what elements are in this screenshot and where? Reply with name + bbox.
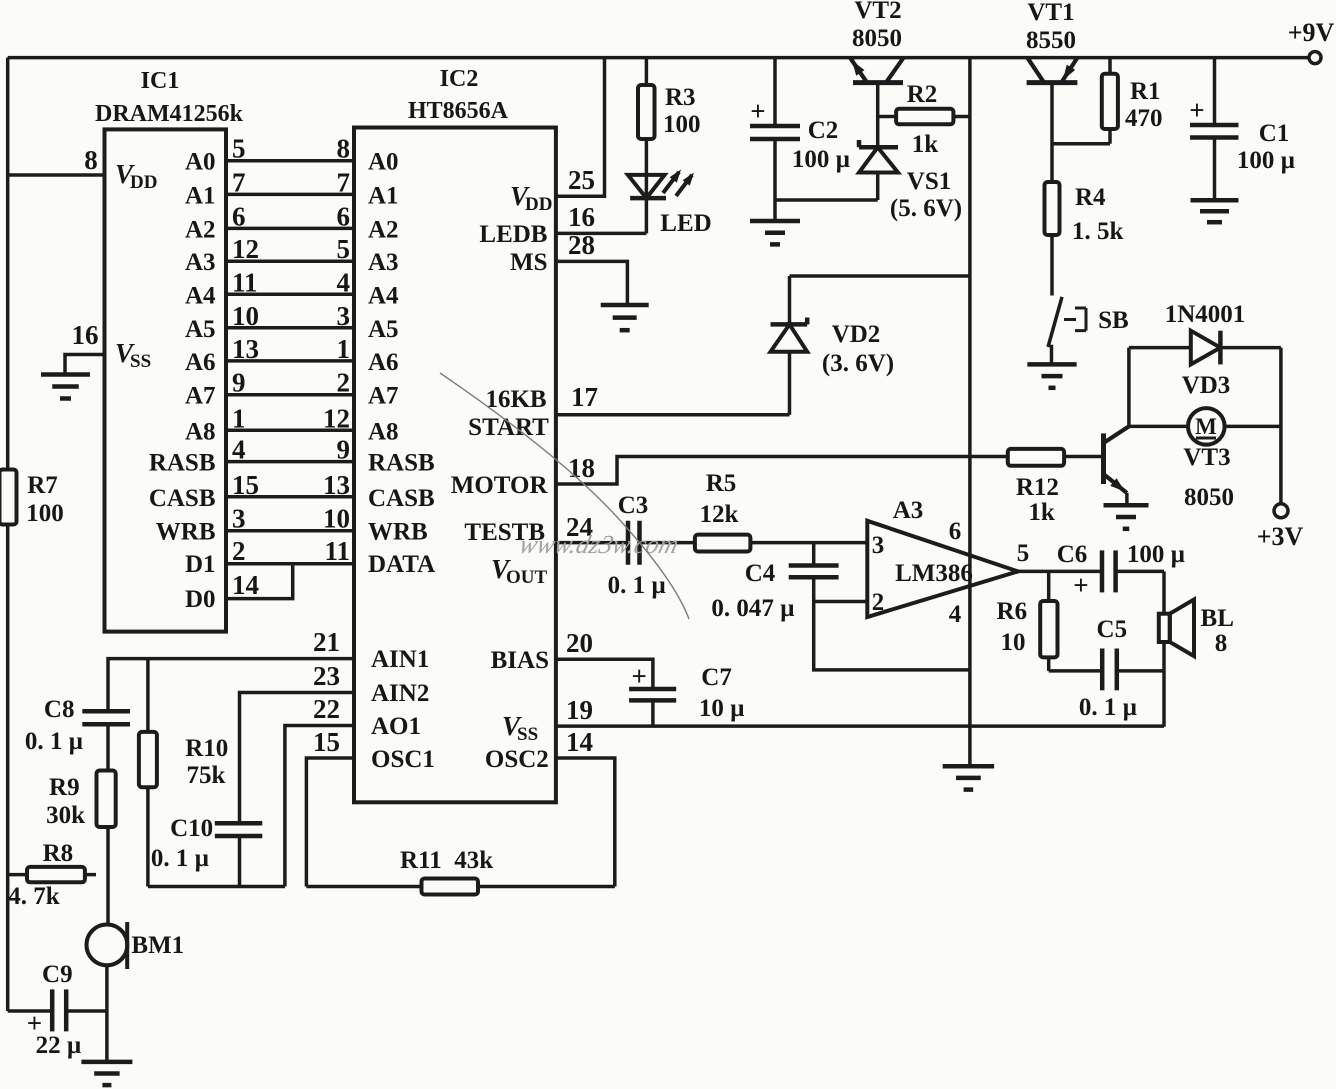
switch SB	[1048, 297, 1062, 347]
wire R8 row	[8, 873, 96, 877]
wire C3 to R5	[640, 541, 695, 545]
wire to +3V terminal	[1279, 348, 1283, 504]
capacitor C10	[215, 823, 262, 836]
wire IC2 pin22 AO1 loop	[285, 726, 354, 887]
svg-text:R11 43k: R11 43k	[400, 847, 493, 874]
wire LED to LEDB	[645, 198, 649, 233]
wire C2 top	[773, 58, 777, 126]
svg-text:17: 17	[571, 382, 598, 412]
svg-text:2: 2	[337, 368, 351, 398]
svg-text:IC2: IC2	[440, 66, 479, 92]
svg-text:5: 5	[1017, 540, 1030, 567]
svg-text:4: 4	[337, 267, 351, 297]
svg-text:+9V: +9V	[1288, 18, 1335, 47]
svg-text:8050: 8050	[852, 25, 902, 52]
svg-text:A7: A7	[368, 383, 399, 410]
wire IC2 pin23 AIN2 to C10	[240, 693, 355, 824]
svg-text:A4: A4	[368, 282, 399, 309]
svg-text:A3: A3	[893, 497, 924, 524]
svg-text:D1: D1	[185, 551, 216, 578]
svg-text:5: 5	[337, 234, 351, 264]
wire C1 bottom	[1213, 138, 1217, 201]
wire IC1 pin16 VSS	[65, 355, 105, 375]
svg-text:1: 1	[232, 403, 246, 433]
resistor R10	[139, 732, 157, 787]
ground VT3	[1104, 505, 1149, 529]
resistor R4	[1045, 182, 1060, 235]
svg-text:MS: MS	[510, 249, 548, 276]
svg-text:LM386: LM386	[895, 560, 973, 587]
wire IC2 pin28 MS	[556, 261, 628, 305]
svg-text:OSC1: OSC1	[371, 746, 435, 773]
wire bus A4	[226, 293, 354, 297]
resistor R7	[0, 470, 17, 525]
diode VD3 1N4001	[1191, 331, 1221, 365]
svg-text:3: 3	[872, 532, 885, 559]
wire IC2 pin15 OSC1 loop	[306, 758, 354, 887]
resistor R2	[896, 109, 953, 125]
svg-text:15: 15	[313, 727, 340, 757]
svg-text:C2: C2	[808, 117, 839, 144]
capacitor C4	[789, 566, 839, 578]
microphone BM1	[87, 925, 128, 966]
svg-text:6: 6	[232, 201, 246, 231]
svg-text:+3V: +3V	[1257, 522, 1304, 551]
wire C9 left	[8, 1009, 53, 1013]
svg-text:C7: C7	[701, 664, 732, 691]
svg-text:8: 8	[337, 134, 351, 164]
svg-text:15: 15	[232, 470, 259, 500]
svg-text:A5: A5	[185, 316, 216, 343]
svg-text:100 µ: 100 µ	[792, 146, 850, 173]
svg-text:VD2: VD2	[832, 321, 881, 348]
svg-text:BIAS: BIAS	[491, 647, 549, 674]
svg-text:R7: R7	[27, 472, 58, 499]
svg-text:WRB: WRB	[156, 519, 216, 546]
wire IC2 pin25 VDD to rail	[556, 58, 605, 197]
capacitor C2	[750, 126, 800, 139]
svg-text:7: 7	[232, 167, 246, 197]
wire bus A3	[226, 259, 354, 263]
svg-text:RASB: RASB	[149, 450, 216, 477]
svg-text:16: 16	[72, 320, 99, 350]
svg-text:A2: A2	[368, 216, 399, 243]
wire VD3 anode side	[1129, 346, 1191, 350]
capacitor C3	[628, 521, 640, 565]
svg-text:6: 6	[949, 518, 962, 545]
svg-text:SS: SS	[130, 351, 151, 372]
svg-text:14: 14	[566, 727, 593, 757]
ground MS	[601, 305, 649, 330]
svg-text:C10: C10	[170, 815, 213, 842]
wire C9 right	[66, 1009, 107, 1013]
svg-text:BL: BL	[1201, 605, 1234, 632]
wire R1 bottom	[1108, 129, 1112, 144]
wire main vertical net	[968, 58, 972, 767]
svg-text:VT3: VT3	[1183, 444, 1230, 471]
wire R1 bottom link	[1052, 142, 1110, 146]
svg-text:14: 14	[232, 570, 259, 600]
svg-text:1N4001: 1N4001	[1165, 301, 1246, 328]
svg-text:HT8656A: HT8656A	[408, 98, 509, 124]
svg-text:VT1: VT1	[1027, 0, 1074, 26]
svg-text:AIN2: AIN2	[371, 680, 429, 707]
wire bus A8	[226, 429, 354, 433]
svg-text:AO1: AO1	[371, 713, 421, 740]
LED diode	[628, 175, 665, 198]
wire C6 to speaker column	[1116, 571, 1164, 726]
svg-text:0. 1 µ: 0. 1 µ	[608, 572, 666, 599]
svg-text:A4: A4	[185, 282, 216, 309]
svg-text:A6: A6	[368, 349, 399, 376]
svg-text:SS: SS	[517, 724, 538, 745]
wire C5 to speaker column	[1117, 669, 1164, 673]
svg-text:START: START	[468, 414, 549, 441]
svg-text:M: M	[1195, 414, 1217, 439]
IC2 HT8656A	[354, 128, 556, 803]
capacitor C9	[52, 989, 66, 1031]
svg-text:0. 1 µ: 0. 1 µ	[25, 728, 83, 755]
wire bus DATA	[226, 562, 354, 566]
wire R6 top	[1047, 571, 1051, 601]
wire C4 bottom loop to pin4	[814, 577, 970, 670]
wire bus A7	[226, 393, 354, 397]
svg-text:BM1: BM1	[131, 932, 184, 959]
ground C2	[750, 221, 800, 244]
wire left border net	[6, 58, 10, 1011]
wire bus A6	[226, 359, 354, 363]
terminal +9V	[1309, 52, 1321, 64]
svg-text:A2: A2	[185, 216, 216, 243]
wire op-amp pin2	[814, 600, 868, 604]
svg-text:VD3: VD3	[1182, 372, 1231, 399]
svg-text:8050: 8050	[1184, 484, 1234, 511]
svg-text:3: 3	[337, 301, 351, 331]
capacitor C6	[1102, 550, 1116, 592]
svg-text:1: 1	[337, 334, 351, 364]
svg-text:DATA: DATA	[368, 551, 435, 578]
wire R4 to SB	[1050, 235, 1054, 296]
wire bus A0	[226, 159, 354, 163]
svg-text:20: 20	[566, 628, 593, 658]
svg-text:+: +	[1073, 570, 1088, 600]
ground BM1	[81, 1062, 132, 1085]
wire VT1 base down	[1050, 83, 1054, 182]
svg-text:IC1: IC1	[141, 68, 180, 94]
svg-text:5: 5	[232, 134, 246, 164]
wire C1 top	[1213, 58, 1217, 125]
svg-text:A0: A0	[368, 149, 399, 176]
speaker BL	[1159, 614, 1170, 642]
svg-text:3: 3	[232, 504, 246, 534]
svg-text:22: 22	[313, 694, 340, 724]
svg-text:R12: R12	[1016, 474, 1059, 501]
wire AO1 bottom net	[148, 885, 285, 889]
svg-text:+: +	[632, 661, 647, 691]
svg-text:R1: R1	[1130, 78, 1161, 105]
wire IC2 pin24 TESTB to C3	[556, 541, 628, 545]
capacitor C8	[82, 711, 130, 724]
scratch artifact	[440, 373, 689, 619]
wire R5 to op-amp pin3	[750, 541, 867, 545]
wire IC2 pin18 MOTOR to R12 to VT3 base	[556, 457, 1104, 485]
wire C2 bottom	[773, 139, 777, 221]
svg-text:16KB: 16KB	[485, 386, 546, 413]
ground IC1 VSS	[41, 375, 90, 399]
svg-text:22 µ: 22 µ	[36, 1032, 82, 1059]
ground LM386 pin4	[943, 766, 994, 789]
wire R2 right	[953, 115, 970, 119]
transistor VT2 8050	[853, 80, 903, 85]
wire VT3 emitter	[1125, 493, 1129, 505]
wire bus WRB	[226, 529, 354, 533]
wire bus CASB	[226, 495, 354, 499]
svg-text:18: 18	[568, 453, 595, 483]
svg-text:23: 23	[313, 661, 340, 691]
svg-text:www.dz3w.com: www.dz3w.com	[517, 529, 682, 559]
svg-text:DRAM41256k: DRAM41256k	[95, 101, 244, 127]
svg-text:+: +	[750, 96, 765, 126]
svg-text:A6: A6	[185, 349, 216, 376]
transistor VT3 8050	[1101, 433, 1106, 484]
svg-text:19: 19	[566, 695, 593, 725]
wire C7 bottom	[651, 700, 655, 726]
wire C10 bottom	[238, 836, 242, 887]
svg-text:R8: R8	[43, 840, 74, 867]
wire IC2 pin21 AIN1 to C8	[108, 659, 354, 712]
svg-text:0. 047 µ: 0. 047 µ	[711, 595, 794, 622]
svg-text:9: 9	[337, 435, 351, 465]
svg-text:13: 13	[323, 470, 350, 500]
wire motor right	[1225, 425, 1281, 429]
wire op-amp output to C6	[1018, 570, 1102, 574]
svg-text:9: 9	[232, 368, 246, 398]
zener VS1	[859, 140, 898, 147]
svg-text:(5. 6V): (5. 6V)	[890, 195, 962, 222]
svg-text:8550: 8550	[1026, 27, 1076, 54]
svg-text:4. 7k: 4. 7k	[8, 883, 60, 910]
svg-text:11: 11	[324, 536, 350, 566]
resistor R6	[1040, 601, 1057, 657]
svg-text:10: 10	[1001, 629, 1026, 656]
svg-text:0. 1 µ: 0. 1 µ	[1079, 694, 1137, 721]
ground C1	[1191, 200, 1239, 222]
svg-text:DD: DD	[130, 172, 157, 193]
svg-text:A8: A8	[185, 418, 216, 445]
wire VD3 left leg	[1127, 348, 1131, 427]
svg-text:A1: A1	[368, 182, 399, 209]
svg-text:C5: C5	[1097, 616, 1128, 643]
terminal +3V	[1274, 504, 1288, 518]
svg-text:R2: R2	[907, 81, 938, 108]
svg-text:100: 100	[663, 111, 701, 138]
svg-text:2: 2	[232, 536, 246, 566]
wire R6 bottom	[1047, 657, 1051, 671]
resistor R8	[27, 867, 85, 882]
svg-text:C8: C8	[44, 696, 75, 723]
wire to bottom ground	[105, 1011, 109, 1062]
transistor VT1 8550	[1027, 80, 1078, 85]
svg-text:R3: R3	[665, 84, 696, 111]
svg-text:(3. 6V): (3. 6V)	[822, 350, 894, 377]
svg-text:100: 100	[26, 500, 64, 527]
svg-text:A3: A3	[368, 249, 399, 276]
svg-text:A5: A5	[368, 316, 399, 343]
svg-text:12k: 12k	[700, 501, 739, 528]
svg-text:C6: C6	[1057, 541, 1088, 568]
svg-text:VT2: VT2	[854, 0, 901, 24]
svg-text:DD: DD	[525, 194, 552, 215]
svg-text:R9: R9	[49, 774, 80, 801]
wire R1 top	[1108, 58, 1112, 74]
wire motor left	[1129, 425, 1188, 429]
wire R2 left	[878, 115, 896, 119]
svg-text:10: 10	[232, 301, 259, 331]
svg-text:6: 6	[337, 201, 351, 231]
svg-text:25: 25	[568, 165, 595, 195]
wire IC1 pin8 VDD	[8, 173, 105, 177]
svg-text:C3: C3	[618, 492, 649, 519]
svg-text:2: 2	[872, 589, 885, 616]
svg-text:4: 4	[949, 601, 962, 628]
LED arrows	[663, 172, 692, 196]
svg-text:A3: A3	[185, 249, 216, 276]
wire R3 to LED	[645, 139, 649, 198]
svg-text:A7: A7	[185, 383, 216, 410]
svg-text:100 µ: 100 µ	[1237, 147, 1295, 174]
svg-text:8: 8	[84, 145, 98, 175]
wire VD2 top to main vertical	[790, 276, 970, 324]
wire C4 top lead	[812, 543, 816, 566]
svg-text:100 µ: 100 µ	[1127, 541, 1185, 568]
wire BM1 bottom	[105, 965, 109, 1011]
svg-text:C4: C4	[745, 560, 776, 587]
svg-text:1k: 1k	[1028, 499, 1055, 526]
svg-text:R4: R4	[1075, 184, 1106, 211]
resistor R12	[1008, 449, 1064, 466]
svg-text:8: 8	[1215, 630, 1228, 657]
svg-text:7: 7	[337, 167, 351, 197]
svg-text:C1: C1	[1259, 120, 1290, 147]
svg-text:75k: 75k	[187, 762, 226, 789]
wire VD3 cathode side	[1220, 346, 1281, 350]
svg-text:10: 10	[323, 504, 350, 534]
resistor R3	[638, 85, 655, 139]
svg-text:LED: LED	[660, 210, 711, 237]
wire IC2 pin16 LEDB	[556, 232, 647, 236]
svg-text:VS1: VS1	[907, 168, 951, 195]
svg-text:OSC2: OSC2	[485, 746, 549, 773]
svg-text:MOTOR: MOTOR	[451, 472, 549, 499]
svg-text:28: 28	[568, 230, 595, 260]
capacitor C5	[1102, 649, 1117, 691]
wire VD2 anode	[788, 352, 792, 415]
svg-text:A8: A8	[368, 418, 399, 445]
svg-text:LEDB: LEDB	[479, 221, 547, 248]
svg-text:30k: 30k	[46, 802, 85, 829]
IC1 DRAM41256k	[105, 129, 227, 631]
wire IC2 pin20 BIAS to C7	[556, 659, 653, 689]
svg-text:12: 12	[323, 403, 350, 433]
wire bus A5	[226, 326, 354, 330]
svg-text:WRB: WRB	[368, 519, 428, 546]
svg-text:R5: R5	[706, 470, 737, 497]
wire SB to ground	[1050, 345, 1054, 365]
wire IC2 pin19 VSS bottom net	[556, 724, 1164, 728]
wire bus A1	[226, 193, 354, 197]
svg-text:+: +	[1189, 95, 1204, 125]
wire IC2 pin14 OSC2 loop	[556, 758, 615, 887]
resistor R9	[97, 771, 116, 828]
capacitor C1	[1190, 125, 1239, 138]
wire VS1 bottom	[876, 173, 880, 201]
svg-text:R10: R10	[185, 735, 228, 762]
svg-text:16: 16	[568, 202, 595, 232]
svg-text:1k: 1k	[912, 131, 939, 158]
svg-text:D0: D0	[185, 586, 216, 613]
svg-text:0. 1 µ: 0. 1 µ	[151, 845, 209, 872]
svg-text:470: 470	[1125, 105, 1163, 132]
svg-text:10 µ: 10 µ	[699, 695, 745, 722]
svg-text:13: 13	[232, 334, 259, 364]
svg-text:CASB: CASB	[149, 485, 216, 512]
wire +9V top rail	[8, 56, 1309, 60]
svg-text:1. 5k: 1. 5k	[1072, 218, 1124, 245]
svg-text:12: 12	[232, 234, 259, 264]
svg-text:21: 21	[313, 627, 340, 657]
svg-text:RASB: RASB	[368, 450, 435, 477]
wire bus A2	[226, 227, 354, 231]
wire IC2 pin17 START	[556, 413, 790, 417]
resistor R11	[422, 879, 479, 895]
wire VT2 base to VS1	[876, 83, 880, 148]
svg-text:11: 11	[232, 267, 258, 297]
wire C8 to R9 to BM1	[106, 724, 110, 923]
wire C2-VS1	[775, 198, 878, 202]
svg-text:A1: A1	[185, 182, 216, 209]
capacitor C7	[629, 689, 676, 700]
wire R3 top	[645, 58, 649, 85]
svg-text:A0: A0	[185, 149, 216, 176]
wire D0 to DATA	[226, 564, 293, 599]
svg-text:C9: C9	[42, 961, 73, 988]
svg-text:AIN1: AIN1	[371, 646, 429, 673]
svg-text:R6: R6	[997, 598, 1028, 625]
wire R6 to C5	[1049, 669, 1103, 673]
svg-text:OUT: OUT	[506, 567, 548, 588]
resistor R1	[1102, 74, 1118, 129]
svg-text:SB: SB	[1098, 307, 1129, 334]
wire bus RASB	[226, 460, 354, 464]
svg-text:4: 4	[232, 435, 246, 465]
resistor R5	[695, 535, 751, 552]
op-amp A3 LM386	[867, 521, 1018, 617]
wire R11 OSC net	[306, 885, 614, 889]
ground SB	[1027, 364, 1076, 387]
wire R10 branch	[146, 659, 150, 887]
svg-text:CASB: CASB	[368, 485, 435, 512]
